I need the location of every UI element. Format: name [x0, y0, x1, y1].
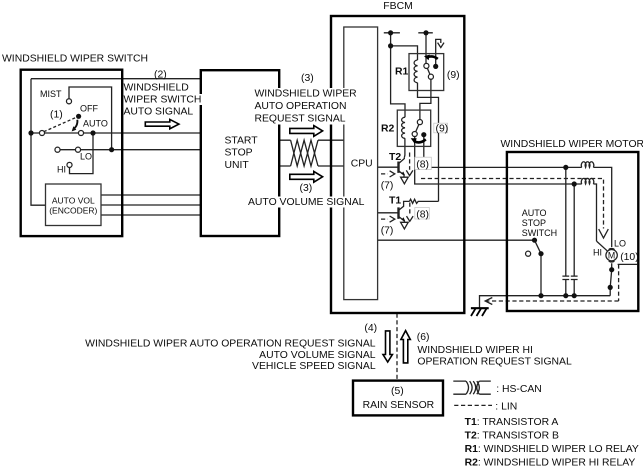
svg-text:(1): (1) — [50, 110, 63, 121]
svg-text:: LIN: : LIN — [495, 401, 517, 412]
svg-text:REQUEST SIGNAL: REQUEST SIGNAL — [255, 114, 346, 125]
svg-text:(4): (4) — [364, 323, 377, 334]
svg-text:SWITCH: SWITCH — [522, 228, 558, 238]
svg-text:T2: T2 — [389, 152, 401, 163]
svg-text:T1: T1 — [389, 195, 401, 206]
svg-text:(8): (8) — [416, 159, 429, 170]
svg-text:: HS-CAN: : HS-CAN — [496, 384, 542, 395]
svg-text:OFF: OFF — [80, 103, 98, 113]
svg-text:CPU: CPU — [351, 158, 373, 169]
svg-text:WINDSHIELD WIPER AUTO OPERATIO: WINDSHIELD WIPER AUTO OPERATION REQUEST … — [85, 338, 376, 349]
svg-text:(5): (5) — [391, 386, 404, 397]
svg-text:VEHICLE SPEED SIGNAL: VEHICLE SPEED SIGNAL — [252, 361, 376, 372]
svg-text:WINDSHIELD WIPER MOTOR: WINDSHIELD WIPER MOTOR — [501, 139, 643, 150]
svg-text:HI: HI — [593, 247, 602, 257]
svg-text:FBCM: FBCM — [383, 1, 412, 12]
svg-text:(9): (9) — [447, 70, 460, 81]
svg-text:AUTO VOLUME SIGNAL: AUTO VOLUME SIGNAL — [259, 350, 376, 361]
svg-text:AUTO: AUTO — [83, 119, 108, 129]
svg-text:(9): (9) — [436, 123, 449, 134]
svg-text:(10): (10) — [620, 252, 638, 263]
svg-text:T2: TRANSISTOR B: T2: TRANSISTOR B — [465, 431, 559, 442]
svg-text:(3): (3) — [301, 73, 314, 84]
svg-text:(7): (7) — [381, 180, 394, 191]
svg-text:WINDSHIELD WIPER: WINDSHIELD WIPER — [255, 89, 358, 100]
svg-text:M: M — [608, 251, 615, 261]
svg-text:R2: WINDSHIELD WIPER HI RELAY: R2: WINDSHIELD WIPER HI RELAY — [465, 457, 636, 467]
svg-text:(8): (8) — [416, 209, 429, 220]
svg-text:AUTO VOLUME SIGNAL: AUTO VOLUME SIGNAL — [248, 197, 365, 208]
svg-text:MIST: MIST — [40, 89, 62, 99]
svg-text:LO: LO — [80, 151, 92, 161]
svg-text:AUTO VOL: AUTO VOL — [52, 196, 95, 206]
svg-text:T1: TRANSISTOR A: T1: TRANSISTOR A — [465, 417, 559, 428]
svg-text:WINDSHIELD WIPER HI: WINDSHIELD WIPER HI — [417, 345, 532, 356]
svg-text:STOP: STOP — [522, 218, 546, 228]
svg-text:STOP: STOP — [225, 148, 253, 159]
svg-text:AUTO OPERATION: AUTO OPERATION — [255, 101, 347, 112]
svg-text:(2): (2) — [154, 70, 167, 81]
svg-text:AUTO SIGNAL: AUTO SIGNAL — [124, 107, 194, 118]
svg-text:AUTO: AUTO — [522, 208, 547, 218]
svg-text:OPERATION REQUEST SIGNAL: OPERATION REQUEST SIGNAL — [417, 357, 572, 368]
svg-text:WINDSHIELD WIPER SWITCH: WINDSHIELD WIPER SWITCH — [2, 53, 148, 64]
svg-text:R1: R1 — [395, 67, 409, 78]
svg-text:(3): (3) — [300, 183, 313, 194]
svg-text:LO: LO — [614, 238, 626, 248]
svg-text:WIPER SWITCH: WIPER SWITCH — [124, 95, 202, 106]
svg-text:(ENCODER): (ENCODER) — [49, 206, 97, 216]
svg-text:UNIT: UNIT — [225, 160, 250, 171]
svg-text:R1: WINDSHIELD WIPER LO RELAY: R1: WINDSHIELD WIPER LO RELAY — [465, 444, 639, 455]
svg-text:(7): (7) — [381, 226, 394, 237]
svg-text:WINDSHIELD: WINDSHIELD — [124, 83, 189, 94]
svg-text:HI: HI — [57, 164, 66, 174]
svg-text:(6): (6) — [417, 332, 430, 343]
svg-text:START: START — [225, 136, 259, 147]
svg-text:R2: R2 — [381, 123, 395, 134]
svg-text:RAIN SENSOR: RAIN SENSOR — [363, 400, 435, 411]
